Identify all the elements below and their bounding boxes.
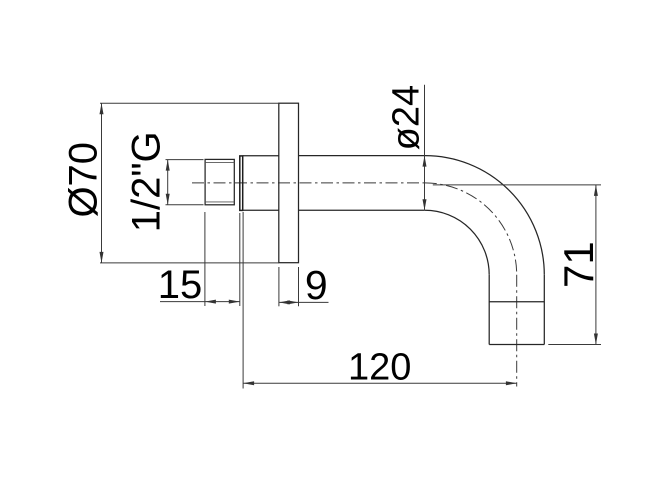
washer face plate: [240, 156, 243, 211]
svg-text:9: 9: [305, 262, 328, 308]
wall flange plate: [279, 103, 299, 263]
dimension 120 extension line: [242, 212, 244, 389]
wire centerline bend arc: [425, 183, 517, 275]
dimension 120 line: [243, 382, 517, 384]
body tube washer-to-flange: [243, 156, 279, 211]
spout tube horizontal: [299, 156, 425, 211]
dimension D70 arrows: [100, 103, 104, 114]
svg-text:120: 120: [348, 347, 411, 389]
dimension d24 arrows: [423, 156, 427, 167]
dimension D70 line: [101, 103, 103, 263]
thread crest lines: [205, 162, 234, 202]
svg-text:15: 15: [158, 263, 203, 307]
dimension 71 extension lines: [433, 185, 601, 345]
dimension 15 extension lines: [205, 212, 240, 306]
svg-text:Ø70: Ø70: [62, 142, 106, 218]
dimension 9 line: [279, 301, 329, 303]
dimension 15 arrows: [205, 300, 216, 304]
dimension 71 line: [595, 185, 597, 345]
dimension 1/2G line: [167, 160, 169, 205]
dimension 71 arrows: [594, 185, 598, 196]
dimension D70 extension lines: [100, 103, 279, 263]
thread body 1/2"G: [205, 159, 234, 204]
wire centerline vertical: [516, 275, 518, 387]
dimension 1/2G arrows: [166, 160, 170, 171]
dimension 9 arrows: [279, 300, 290, 304]
dimension 15 line: [160, 301, 240, 303]
spout end seam: [489, 301, 544, 303]
wire centerline horizontal: [192, 182, 425, 184]
dimension d24 line: [424, 85, 426, 210]
svg-text:71: 71: [555, 241, 602, 288]
svg-text:1/2"G: 1/2"G: [125, 131, 169, 232]
dimension 1/2G extension lines: [166, 160, 204, 205]
dimension 9 extension lines: [279, 267, 299, 306]
spout bend outer arc: [425, 156, 545, 275]
svg-text:ø24: ø24: [386, 85, 428, 150]
spout bend inner arc: [425, 210, 489, 274]
dimension 120 arrows: [243, 381, 254, 385]
spout tube vertical: [489, 275, 544, 345]
